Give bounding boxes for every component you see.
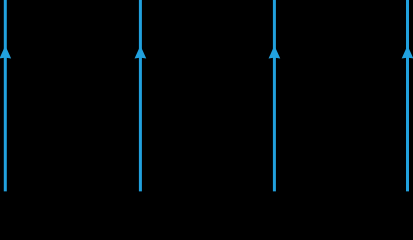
field line arrow 1 xyxy=(0,0,11,191)
field line arrow 3 xyxy=(269,0,281,191)
field line arrow 4 xyxy=(402,0,413,191)
field line arrow 2 xyxy=(135,0,147,191)
